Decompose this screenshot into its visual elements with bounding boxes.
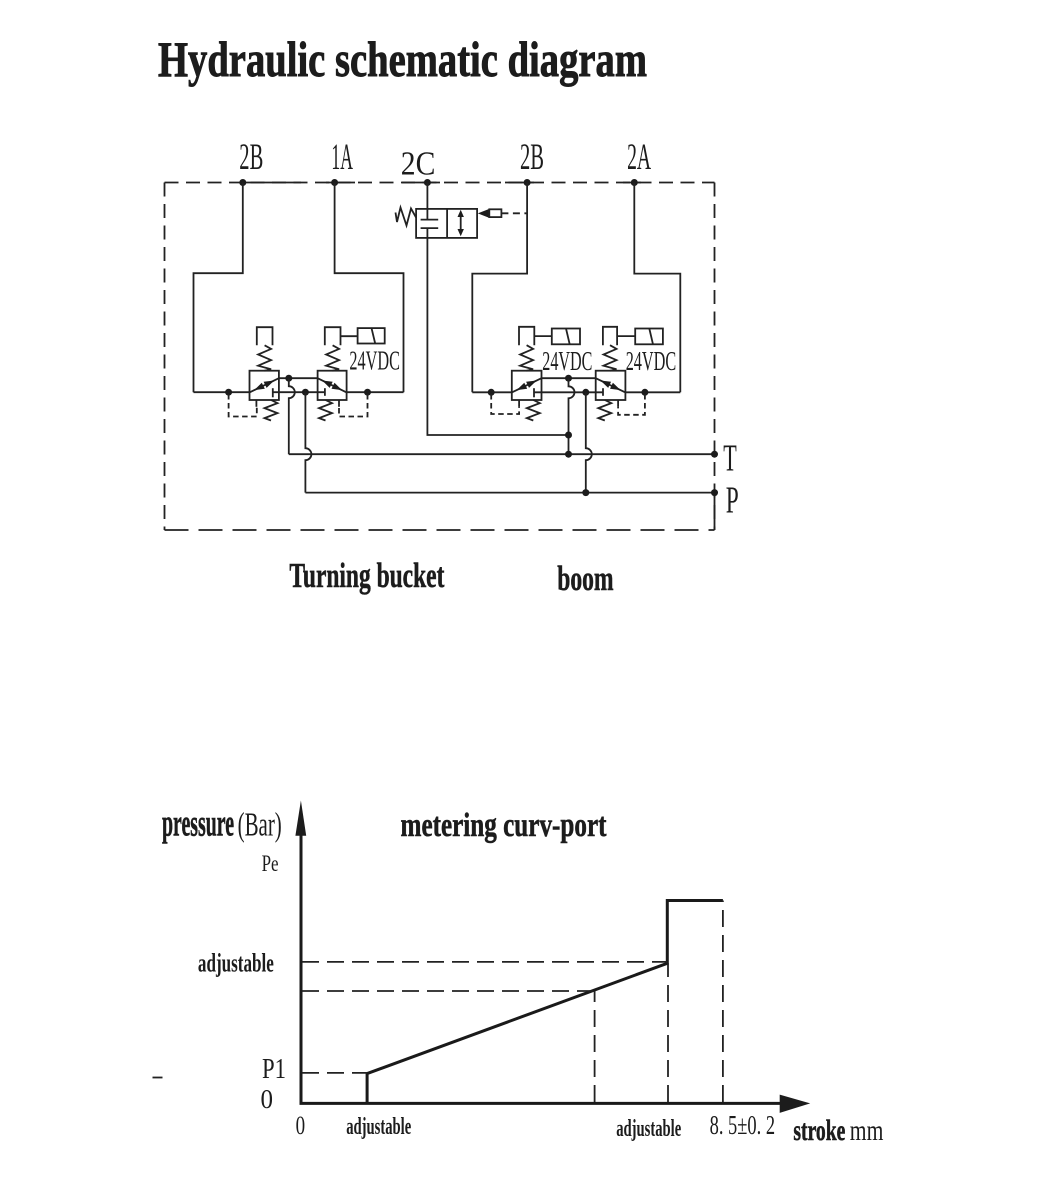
valve U1 closed position bars xyxy=(421,209,439,238)
valve U1 pilot solenoid triangle xyxy=(478,209,490,218)
svg-text:8. 5±0. 2: 8. 5±0. 2 xyxy=(710,1110,776,1140)
svg-text:stroke: stroke xyxy=(793,1114,845,1147)
relief valve V4 (boom right) body xyxy=(596,371,626,400)
valve V3 spring (bottom) xyxy=(527,400,540,421)
node turning-bucket P tap xyxy=(302,389,309,396)
svg-text:metering curv-port: metering curv-port xyxy=(401,807,607,844)
svg-text:2A: 2A xyxy=(627,137,651,178)
valve V3 spring (top) xyxy=(520,345,533,371)
svg-text:P1: P1 xyxy=(262,1053,286,1085)
svg-text:Hydraulic schematic diagram: Hydraulic schematic diagram xyxy=(158,31,647,87)
valve V1 spring (top) xyxy=(258,345,271,370)
node turning-bucket pilot left xyxy=(225,389,232,396)
valve V2 drain stub xyxy=(338,400,340,407)
wire turning-bucket bridge (upper) xyxy=(279,377,318,379)
valve V3 drain stub xyxy=(518,400,520,407)
node port 2A xyxy=(631,179,638,186)
node turning-bucket bridge xyxy=(285,375,292,382)
valve V2 pilot dashed line xyxy=(339,394,368,417)
node boom-T junction xyxy=(565,451,572,458)
valve U1 pilot dashed line to 2B xyxy=(501,212,527,214)
node boom pilot right xyxy=(641,389,648,396)
svg-text:Turning bucket: Turning bucket xyxy=(289,556,444,595)
svg-text:Pe: Pe xyxy=(262,851,279,876)
valve V1 pilot cap xyxy=(257,327,273,345)
right border solid segment below P port xyxy=(714,493,716,530)
wire 2C drop and run to T junction xyxy=(427,183,568,436)
unloading valve U1 (2C) body xyxy=(416,209,477,238)
svg-text:adjustable: adjustable xyxy=(346,1114,411,1140)
node port 2C xyxy=(424,179,431,186)
svg-text:adjustable: adjustable xyxy=(198,949,274,978)
y axis xyxy=(300,830,303,1103)
solenoid S1 link xyxy=(341,335,358,337)
svg-text:0: 0 xyxy=(261,1084,274,1114)
svg-text:1A: 1A xyxy=(331,137,353,178)
node port 2B boom xyxy=(524,179,531,186)
manifold enclosure dashed border xyxy=(165,183,715,531)
valve V4 spring (top) xyxy=(604,345,617,371)
valve V2 spring (top) xyxy=(326,345,339,370)
node P port xyxy=(711,489,718,496)
svg-text:(Bar): (Bar) xyxy=(238,807,282,844)
node port 2B turning bucket xyxy=(239,179,246,186)
wire T line xyxy=(289,453,715,455)
valve V4 spring (bottom) xyxy=(598,400,611,421)
node boom pilot left xyxy=(488,389,495,396)
svg-text:24VDC: 24VDC xyxy=(626,346,677,376)
stray margin dash xyxy=(153,1077,163,1079)
valve V1 pilot dashed line xyxy=(229,394,257,417)
y axis arrowhead xyxy=(295,801,306,836)
valve U1 pilot solenoid box xyxy=(489,209,501,217)
valve V3 pilot cap xyxy=(519,327,534,345)
dashed level line adjustable (upper) xyxy=(302,961,667,963)
wire 1A to turning-bucket right rail xyxy=(335,183,404,393)
svg-text:pressure: pressure xyxy=(162,803,234,845)
wire P line xyxy=(305,492,714,494)
node boom P tap xyxy=(582,389,589,396)
dashed drop line (knee) xyxy=(667,963,669,1102)
metering curve xyxy=(367,901,723,1103)
dashed drop line (end 8.5) xyxy=(722,901,724,1103)
solenoid S1 (24VDC) xyxy=(358,328,385,343)
svg-text:24VDC: 24VDC xyxy=(542,346,592,376)
dashed level line (lower) xyxy=(302,990,594,992)
svg-text:P: P xyxy=(726,480,739,522)
valve V1 spring (bottom) xyxy=(265,400,278,421)
node port 1A xyxy=(331,179,338,186)
wire 2A to boom right rail xyxy=(634,183,680,393)
wire 2B to turning-bucket left rail xyxy=(194,183,243,393)
valve V3 pilot dashed line xyxy=(491,394,519,414)
wire turning-bucket gallery to P (hop over T) xyxy=(305,392,311,492)
node turning-bucket pilot right xyxy=(364,389,371,396)
wire turning-bucket main gallery xyxy=(194,391,404,393)
svg-text:boom: boom xyxy=(557,559,613,598)
solenoid S3 link xyxy=(617,335,635,337)
valve U1 flow arrow xyxy=(458,210,464,236)
wire boom gallery to P (hop over T) xyxy=(586,392,592,492)
svg-text:2B: 2B xyxy=(520,137,544,178)
node boom-P junction xyxy=(582,489,589,496)
relief valve V3 (boom left) body xyxy=(512,371,542,400)
dashed level line P1 xyxy=(302,1072,367,1074)
valve V1 drain stub xyxy=(255,400,257,407)
x axis xyxy=(300,1102,783,1105)
wire boom main gallery xyxy=(472,391,680,393)
svg-text:2C: 2C xyxy=(401,146,436,183)
top border solid runs at port taps xyxy=(243,182,641,184)
dashed drop line (mid stroke) xyxy=(594,991,596,1102)
svg-text:adjustable: adjustable xyxy=(616,1116,681,1142)
wire turning-bucket bridge to T (hop over gallery) xyxy=(289,378,295,454)
solenoid S3 (24VDC) xyxy=(635,329,663,345)
wire boom bridge to T (hop over gallery) xyxy=(569,378,575,454)
svg-text:2B: 2B xyxy=(239,137,263,178)
valve V2 pilot cap xyxy=(325,327,341,345)
node T port xyxy=(711,451,718,458)
solenoid S2 (24VDC) xyxy=(552,329,580,345)
node 2C/T junction xyxy=(565,432,572,439)
valve V4 pilot cap xyxy=(603,327,617,345)
x axis arrowhead xyxy=(780,1095,811,1113)
wire boom bridge (upper) xyxy=(542,377,596,379)
svg-text:0: 0 xyxy=(296,1111,306,1140)
svg-text:mm: mm xyxy=(850,1114,884,1147)
valve V4 pilot dashed line xyxy=(618,394,645,415)
valve U1 spring (left) xyxy=(396,208,417,226)
svg-text:T: T xyxy=(723,438,737,480)
relief valve V2 (turning bucket right) body xyxy=(318,371,347,400)
valve V2 spring (bottom) xyxy=(319,400,332,421)
svg-text:24VDC: 24VDC xyxy=(349,346,400,376)
wire 2B to boom left rail xyxy=(472,183,527,393)
valve V4 drain stub xyxy=(617,400,619,407)
node boom bridge xyxy=(565,375,572,382)
relief valve V1 (turning bucket left) body xyxy=(250,371,279,400)
solenoid S2 link xyxy=(534,335,552,337)
